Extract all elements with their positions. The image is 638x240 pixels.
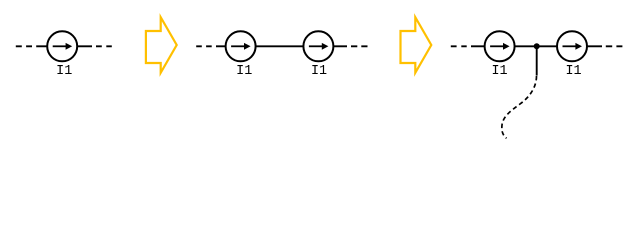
wire W12 series connection through node (third diagram) xyxy=(515,45,557,47)
wire W15 solid right pin of third diagram xyxy=(587,45,602,47)
value label I1 (second diagram, right) xyxy=(311,64,327,79)
wire W16 dashed right of third diagram xyxy=(606,45,623,47)
current source I1 (third diagram, right) xyxy=(557,31,587,61)
wire W8 solid right pin of second diagram xyxy=(334,45,348,47)
wire W5 dashed left of second diagram xyxy=(196,45,212,47)
wire W3 solid right pin of first current source xyxy=(78,45,92,47)
wire W14 dashed curved branch from junction node xyxy=(502,76,537,138)
wire W11 solid left pin of third diagram xyxy=(471,45,484,47)
wire W9 dashed right of second diagram xyxy=(351,45,368,47)
value label I1 (third diagram, left) xyxy=(491,64,507,79)
wire W7 series connection between the two sources (second diagram) xyxy=(256,45,304,47)
svg-text:I1: I1 xyxy=(565,64,581,79)
value label I1 (third diagram, right) xyxy=(565,64,581,79)
wire W4 dashed right of first current source xyxy=(96,45,112,47)
wire W10 dashed left of third diagram xyxy=(451,45,467,47)
value label I1 (first diagram) xyxy=(56,64,72,79)
wire W13 vertical stub from junction node xyxy=(536,46,538,75)
svg-text:I1: I1 xyxy=(56,64,72,79)
transformation arrow 2 (yellow block arrow) xyxy=(401,17,432,73)
svg-text:I1: I1 xyxy=(236,64,252,79)
node junction dot between sources (third diagram) xyxy=(534,43,540,49)
wire W2 solid left pin of first current source xyxy=(36,45,47,47)
svg-text:I1: I1 xyxy=(491,64,507,79)
current source I1 (second diagram, right) xyxy=(303,31,333,61)
wire W6 solid left pin of second diagram xyxy=(216,45,226,47)
current source I1 (first diagram) xyxy=(47,31,77,61)
current source I1 (third diagram, left) xyxy=(485,31,515,61)
wire W1 dashed left of first current source xyxy=(16,45,32,47)
value label I1 (second diagram, left) xyxy=(236,64,252,79)
current source I1 (second diagram, left) xyxy=(226,31,256,61)
transformation arrow 1 (yellow block arrow) xyxy=(146,17,177,73)
svg-text:I1: I1 xyxy=(311,64,327,79)
